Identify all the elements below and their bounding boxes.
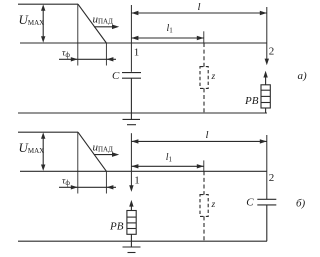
svg-text:l1: l1 [166,152,173,164]
extension line node 2 (b) [266,135,268,199]
extension tick at l1 right end (b) [203,160,205,171]
wire: ground return conductor (a) [18,112,267,114]
arrow: reflected wave into arrester (a) [263,71,267,85]
arrow: wave travel direction (b) [94,152,119,157]
arrow: surge arriving at node 1 (b) [129,185,133,192]
extension line at wave crest corner (a) [77,4,79,66]
wire: dashed z to ground conductor (a) [203,88,205,113]
wire: dashed drop to z (a) [203,43,205,67]
extension tick at l1 right end (a) [203,31,205,43]
svg-text:z: z [211,200,216,210]
svg-text:uПАД: uПАД [93,141,114,153]
arrow: reflected wave into arrester (b) [129,200,133,211]
svg-text:2: 2 [269,46,275,58]
wire: dashed z to ground conductor (b) [203,216,205,241]
arrester PB body (a) [261,85,270,108]
dimension tau_f arrow (b) [59,185,116,189]
dimension Umax arrow (b) [41,132,45,171]
wire: capacitor lead to ground conductor (b) [266,205,268,241]
wire: phase conductor bus (a) [20,42,267,44]
impedance z dashed box (b) [200,195,208,217]
wire: capacitor lead to ground (a) [130,78,132,119]
wire: wave crest top line (b) [18,131,78,133]
svg-text:б): б) [296,198,306,210]
svg-text:τф: τф [62,49,70,59]
dimension l line length (b) [131,139,266,143]
arrow: surge arriving at node 2 (a) [265,59,269,66]
svg-text:РВ: РВ [244,95,259,107]
svg-text:2: 2 [269,172,275,184]
svg-text:UМАХ: UМАХ [19,140,45,155]
svg-text:C: C [246,196,254,208]
wire: ground return conductor (b) [18,240,267,242]
svg-text:l: l [198,1,201,13]
dimension l line length (a) [131,11,266,15]
svg-text:1: 1 [134,175,140,187]
dimension l1 (a) [131,36,203,40]
wire: arrester bottom lead (a) [265,108,267,113]
capacitor C plates (a) [122,73,141,79]
svg-text:l1: l1 [167,23,174,35]
svg-text:z: z [211,72,216,82]
wire: wave front slope (a) [78,4,106,43]
impedance z dashed box (a) [200,67,208,89]
ground symbol under C (a) [123,119,141,124]
extension line node 1 (b) [130,133,132,186]
svg-text:l: l [206,129,209,141]
extension line at wave front foot (a) [105,43,107,66]
ground symbol under PB (b) [123,247,141,253]
extension line at wave crest corner (b) [77,132,79,194]
wire: phase conductor bus (b) [20,170,267,172]
wire: wave crest top line (a) [18,3,78,5]
dimension tau_f arrow (a) [59,57,116,61]
svg-text:τф: τф [62,177,70,187]
extension line at wave front foot (b) [105,171,107,193]
svg-text:UМАХ: UМАХ [19,12,45,27]
wire: dashed drop to z (b) [203,171,205,194]
dimension Umax arrow (a) [41,4,45,42]
arrow: wave travel direction (a) [94,25,119,30]
svg-text:а): а) [298,70,308,82]
capacitor C plates (b) [257,199,276,205]
dimension l1 (b) [131,164,203,168]
svg-text:1: 1 [134,47,140,59]
extension line node 2 (a) [266,7,268,59]
svg-text:uПАД: uПАД [93,13,114,25]
svg-text:C: C [112,70,120,82]
arrester PB body (b) [127,211,136,235]
wire: wave front slope (b) [78,132,106,171]
extension line node 1 (a) [130,5,132,72]
wire: arrester lead through conductor to ground (b) [130,234,132,247]
svg-text:РВ: РВ [109,221,124,233]
